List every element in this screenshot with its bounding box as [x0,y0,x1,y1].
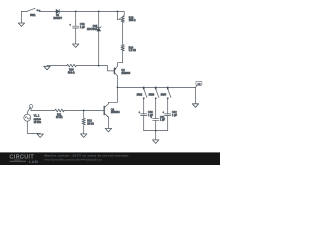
source V1_1 [24,112,42,133]
svg-text:500 Ω: 500 Ω [68,71,75,74]
svg-text:1.2 kΩ: 1.2 kΩ [129,49,136,52]
resistor R12 [82,118,94,125]
svg-text:2N3906: 2N3906 [121,72,130,75]
switch SW1 [27,8,40,17]
svg-text:1 µF: 1 µF [172,114,178,117]
node junction [75,11,77,13]
node junction [117,11,119,13]
capacitor C12 [163,111,178,117]
transistor Q1 NPN [64,102,121,117]
zener diode D15 [87,25,101,31]
node junction R12 [83,110,85,112]
wire [83,126,85,134]
wire Q2 collector down [117,76,119,102]
transistor Q2 PNP [107,66,130,76]
wire [107,66,114,71]
switch SW4 [161,87,171,114]
wire [39,10,56,12]
capacitor C10 [139,111,154,117]
potentiometer R13 [117,11,135,22]
ground mid [44,66,50,70]
capacitor C13 [70,23,86,29]
wire [47,65,67,67]
wire [75,28,77,44]
bus wire [118,86,196,88]
wire emitter down [107,117,109,128]
svg-text:out: out [198,82,201,85]
wire [122,23,124,45]
resistor R11 [55,109,64,119]
svg-text:10 kΩ: 10 kΩ [56,116,63,119]
ground [81,134,87,138]
svg-text:1 µF: 1 µF [80,26,86,29]
svg-text:SW1: SW1 [30,14,36,17]
svg-text:20 kΩ: 20 kΩ [87,122,94,125]
wire [31,110,55,112]
wire [75,11,77,26]
svg-text:SW2: SW2 [137,94,143,97]
capacitor C11 [151,116,166,122]
svg-text:10 kHz: 10 kHz [34,121,42,124]
diode D1 [53,9,62,20]
svg-text:1N4007: 1N4007 [53,17,62,20]
wire [76,65,107,67]
resistor R10 [67,64,76,74]
node junction [155,130,157,132]
ground [73,44,79,47]
ground [192,104,198,108]
node junction [98,65,100,67]
wire [143,116,145,131]
svg-text:LAB: LAB [29,159,38,164]
switch SW3 [149,87,159,119]
node junction [98,11,100,13]
svg-text:SW4: SW4 [161,94,167,97]
svg-text:1N4734A: 1N4734A [87,28,98,31]
ground [105,128,111,132]
wire [155,131,157,140]
wire [167,116,169,131]
wire top rail [59,10,124,12]
svg-text:100 Ω: 100 Ω [129,19,136,22]
wire [155,120,157,130]
svg-text:+: + [70,25,72,27]
wire bus right down [195,87,197,103]
footer bar [0,152,220,165]
ground [153,140,159,144]
svg-text:1 µF: 1 µF [160,119,166,122]
switch SW2 [137,87,147,114]
wire [98,11,100,27]
switch SW5 with source [27,105,33,113]
svg-text:2N3904: 2N3904 [111,111,120,114]
net flag out [196,81,202,87]
wire join caps [144,130,168,132]
svg-text:http://circuitlab.com/circuit/: http://circuitlab.com/circuit/re4hy2qv/g… [45,158,103,162]
svg-text:SW3: SW3 [149,94,155,97]
ground G1 top-left [18,11,24,26]
wire [118,51,123,66]
ground [37,134,43,138]
wire [21,10,27,12]
node junction bus [117,87,119,89]
wire [83,111,85,119]
resistor R14 [121,45,136,52]
wire [98,31,100,66]
